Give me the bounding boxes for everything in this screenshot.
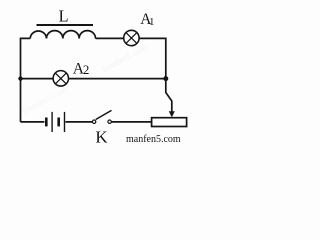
- svg-text:2: 2: [83, 62, 90, 77]
- svg-text:manfen5.com: manfen5.com: [100, 43, 148, 74]
- svg-text:1: 1: [149, 16, 155, 28]
- svg-text:L: L: [59, 6, 69, 25]
- svg-text:manfen5.com: manfen5.com: [126, 134, 181, 145]
- svg-text:manfen5.com: manfen5.com: [20, 85, 68, 116]
- svg-text:K: K: [95, 127, 108, 145]
